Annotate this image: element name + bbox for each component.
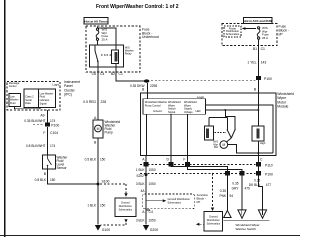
fuse F_UH (W/S Wpr fuse): [96, 28, 98, 30]
svg-text:LED: LED: [196, 109, 201, 113]
wire module D to switch T1: [171, 155, 227, 210]
svg-text:25 A: 25 A: [102, 37, 108, 41]
svg-text:Relay: Relay: [125, 52, 132, 56]
wire relay coil to module: [116, 67, 144, 81]
svg-text:Module: Module: [277, 105, 288, 109]
P100 bar on PNK wire: [225, 171, 230, 175]
terminal T2: [238, 210, 246, 218]
svg-text:Hot in ACC and RUN: Hot in ACC and RUN: [244, 19, 272, 23]
inline connector oval: [144, 79, 150, 82]
svg-text:0.35: 0.35: [232, 181, 238, 185]
wiper motor module box: [141, 93, 277, 155]
switch group line: [224, 220, 270, 222]
ground distribution schematics box (left): [115, 198, 136, 217]
svg-text:I/P: I/P: [279, 32, 284, 36]
svg-text:C6: C6: [92, 72, 96, 76]
svg-text:Logic: Logic: [52, 82, 59, 86]
svg-text:0.5 RED: 0.5 RED: [83, 100, 96, 104]
svg-text:B: B: [254, 88, 257, 92]
svg-text:94: 94: [230, 194, 234, 198]
low relay coil: [208, 118, 210, 127]
svg-text:Signal: Signal: [168, 110, 176, 114]
power distribution ref box: [224, 26, 241, 37]
svg-text:G200: G200: [150, 228, 158, 232]
svg-text:A: A: [142, 210, 145, 214]
fuse block underhood dashed box: [86, 26, 140, 72]
page bottom border: [0, 235, 300, 236]
P110 bar on A wire: [144, 162, 149, 166]
svg-text:A: A: [142, 158, 145, 162]
wire pump to G100: [97, 138, 99, 225]
wire into module pin B: [146, 83, 148, 93]
svg-text:B: B: [94, 140, 97, 144]
svg-text:150: 150: [100, 203, 106, 207]
washer pump box: [93, 120, 103, 138]
relay-coil link dashed: [101, 54, 112, 56]
wire relay to washer pump: [97, 67, 99, 120]
svg-text:P110: P110: [265, 163, 273, 167]
arrow to power distribution: [245, 28, 256, 30]
svg-text:Signal: Signal: [40, 102, 47, 105]
page left border: [4, 0, 6, 237]
dashed ref below box to G100 row: [124, 219, 127, 222]
svg-text:Sensor: Sensor: [57, 166, 68, 170]
wire fuse top feed: [98, 26, 117, 45]
svg-text:C: C: [260, 158, 263, 162]
svg-text:4A: 4A: [141, 189, 146, 193]
svg-text:228: 228: [101, 100, 107, 104]
svg-text:M: M: [97, 127, 100, 131]
dashed ref P100 to ground distribution box (right): [212, 173, 214, 207]
svg-text:Ground Distribution: Ground Distribution: [168, 197, 191, 201]
svg-text:S100: S100: [102, 179, 110, 183]
svg-text:B: B: [44, 172, 47, 176]
module internal supply rail lower: [206, 109, 259, 111]
svg-text:P100: P100: [51, 124, 59, 128]
wire module F to switch T2: [188, 155, 242, 210]
svg-text:(IPC): (IPC): [64, 93, 72, 97]
P100 bar on C wire: [256, 171, 261, 175]
ground G100: [95, 225, 101, 231]
harness dashed line to P100: [151, 80, 256, 82]
svg-text:0.35: 0.35: [220, 189, 226, 193]
svg-text:0.8 BLK/WHT: 0.8 BLK/WHT: [26, 144, 46, 148]
module internal supply rail top: [206, 105, 274, 153]
svg-text:C4: C4: [100, 72, 104, 76]
svg-text:Ground: Ground: [209, 214, 218, 218]
relay box (wpr washer relay): [90, 45, 124, 67]
message center to logic link: [15, 107, 41, 109]
relay link dashed: [215, 132, 227, 134]
wire module A to G200: [145, 155, 147, 224]
relay switch contact: [94, 45, 96, 50]
svg-text:Front Wiper/Washer Control: 1: Front Wiper/Washer Control: 1 of 2: [96, 4, 179, 10]
svg-text:A9: A9: [40, 114, 44, 118]
svg-text:Center: Center: [9, 84, 17, 88]
svg-text:Distribution: Distribution: [207, 218, 221, 222]
svg-text:1 BLK: 1 BLK: [87, 203, 97, 207]
label box Hot At All Times: [84, 18, 108, 25]
fuse F_IP (W/S Wpr fuse 25A): [258, 27, 260, 29]
splice S202: [145, 173, 148, 176]
svg-text:25 A: 25 A: [262, 36, 268, 40]
ground distribution ref arrow in junction block: [146, 200, 163, 202]
svg-text:0.35 BLK/WHT: 0.35 BLK/WHT: [24, 119, 45, 123]
svg-text:C1: C1: [119, 72, 123, 76]
svg-text:PNK: PNK: [219, 194, 226, 198]
splice S100: [97, 183, 100, 186]
svg-text:1050: 1050: [149, 219, 156, 223]
wire logic to pin D: [170, 114, 172, 155]
svg-text:0.8 BLK: 0.8 BLK: [35, 178, 47, 182]
wire fuse bottom to relay: [97, 40, 99, 45]
svg-text:A: A: [94, 116, 97, 120]
wire fuse to P100: [258, 39, 260, 76]
svg-text:Washer Switch: Washer Switch: [236, 227, 257, 231]
svg-text:S202: S202: [136, 174, 144, 178]
wire logic to pin A: [146, 114, 148, 155]
harness P100 dashed line: [140, 172, 256, 174]
junction block dashed box: [143, 194, 195, 209]
wire IPC to sensor: [47, 110, 49, 155]
wire to high-speed contact: [225, 110, 235, 130]
svg-text:G100: G100: [102, 228, 110, 232]
svg-text:1050: 1050: [149, 168, 156, 172]
svg-text:174: 174: [50, 144, 56, 148]
wiper motor link: [227, 138, 232, 142]
IPC logic box: [24, 89, 56, 107]
wire high relay to pin C: [257, 141, 259, 155]
instrument panel cluster dashed box: [7, 82, 60, 110]
connector P100 bar (left): [33, 124, 44, 126]
wire logic to pin F: [187, 114, 189, 155]
dashed ref from S100 to ground distribution box: [100, 184, 126, 193]
svg-text:0.35: 0.35: [254, 178, 260, 182]
svg-text:C4: C4: [149, 210, 153, 214]
ground G200: [143, 225, 149, 231]
switch blades: [227, 130, 235, 139]
svg-text:Ground: Ground: [121, 201, 130, 205]
dashed ref left of box: [199, 223, 204, 225]
svg-text:3 BLK: 3 BLK: [136, 219, 146, 223]
svg-text:Schematics: Schematics: [226, 32, 240, 36]
svg-text:1 BLK: 1 BLK: [136, 168, 146, 172]
wiper motor: [220, 141, 228, 149]
washer pump motor circle: [95, 125, 102, 132]
P110 bar on F wire: [185, 162, 190, 166]
svg-text:Schematics: Schematics: [207, 221, 221, 225]
washer fluid level sensor box: [43, 155, 56, 169]
svg-text:I/P: I/P: [197, 200, 201, 204]
terminal T1 (open triangle): [224, 210, 231, 217]
svg-text:Pump: Pump: [105, 131, 114, 135]
svg-text:D: D: [167, 158, 170, 162]
svg-text:M: M: [222, 143, 225, 147]
svg-text:1050: 1050: [149, 182, 156, 186]
svg-text:Distribution: Distribution: [119, 204, 133, 208]
svg-text:143: 143: [261, 60, 267, 64]
svg-text:Mot: Mot: [214, 146, 218, 149]
svg-text:Underhood: Underhood: [142, 35, 159, 39]
svg-text:DK BLU: DK BLU: [249, 183, 261, 187]
low washer fluid indicator box: [9, 94, 21, 107]
svg-text:B1: B1: [253, 47, 257, 51]
wire module pin B left into logic: [146, 93, 148, 99]
fuse block I/P dashed box: [222, 24, 277, 46]
wire P100 to module pin B: [257, 80, 259, 93]
high relay coil: [252, 126, 264, 141]
wire sensor to S100: [48, 169, 98, 184]
svg-text:150: 150: [100, 157, 106, 161]
P110 bar on D wire: [169, 162, 174, 166]
svg-text:P100: P100: [265, 172, 273, 176]
harness P110 dashed line: [140, 163, 256, 165]
svg-text:B2: B2: [111, 72, 115, 76]
svg-text:Voltage: Voltage: [184, 110, 193, 114]
svg-text:Ground: Ground: [153, 109, 162, 113]
svg-text:F: F: [183, 158, 185, 162]
module logic box: [143, 99, 206, 114]
svg-text:Pump Control: Pump Control: [145, 103, 161, 107]
svg-text:174: 174: [50, 119, 56, 123]
svg-text:1 YEL: 1 YEL: [247, 60, 256, 64]
module internal rail to low contact: [209, 118, 227, 131]
label box Hot In ACC and RUN: [244, 18, 273, 24]
svg-text:P100: P100: [264, 77, 272, 81]
ground distribution schematics box (right): [204, 211, 222, 231]
svg-text:Data: Data: [25, 102, 31, 105]
P100 bar on GRY wire: [239, 171, 244, 175]
P110 bar on C wire: [256, 162, 261, 166]
wire motor to right rail: [228, 144, 273, 153]
svg-text:Schematics: Schematics: [168, 200, 182, 204]
svg-text:Schematics: Schematics: [119, 208, 133, 212]
svg-text:2298: 2298: [150, 84, 157, 88]
wire module pin B right down to high relay: [257, 93, 259, 126]
svg-text:C1: C1: [261, 47, 265, 51]
relay coil: [112, 50, 119, 64]
svg-text:477: 477: [266, 183, 272, 187]
terminal T3: [258, 210, 266, 218]
svg-text:Hot at All Times: Hot at All Times: [84, 20, 107, 24]
connector P100 bar (right): [256, 76, 261, 80]
svg-text:C104: C104: [50, 131, 58, 135]
svg-text:3 BLK: 3 BLK: [136, 182, 146, 186]
svg-text:0.5 BLK: 0.5 BLK: [85, 157, 97, 161]
svg-text:150: 150: [50, 178, 56, 182]
svg-text:F: F: [43, 131, 45, 135]
svg-text:B: B: [142, 88, 145, 92]
svg-text:Logic: Logic: [197, 95, 205, 99]
svg-text:High: High: [260, 141, 266, 145]
svg-text:Fluid: Fluid: [10, 102, 16, 105]
wire module C to switch T3: [258, 155, 262, 210]
svg-text:GRY: GRY: [232, 186, 240, 190]
